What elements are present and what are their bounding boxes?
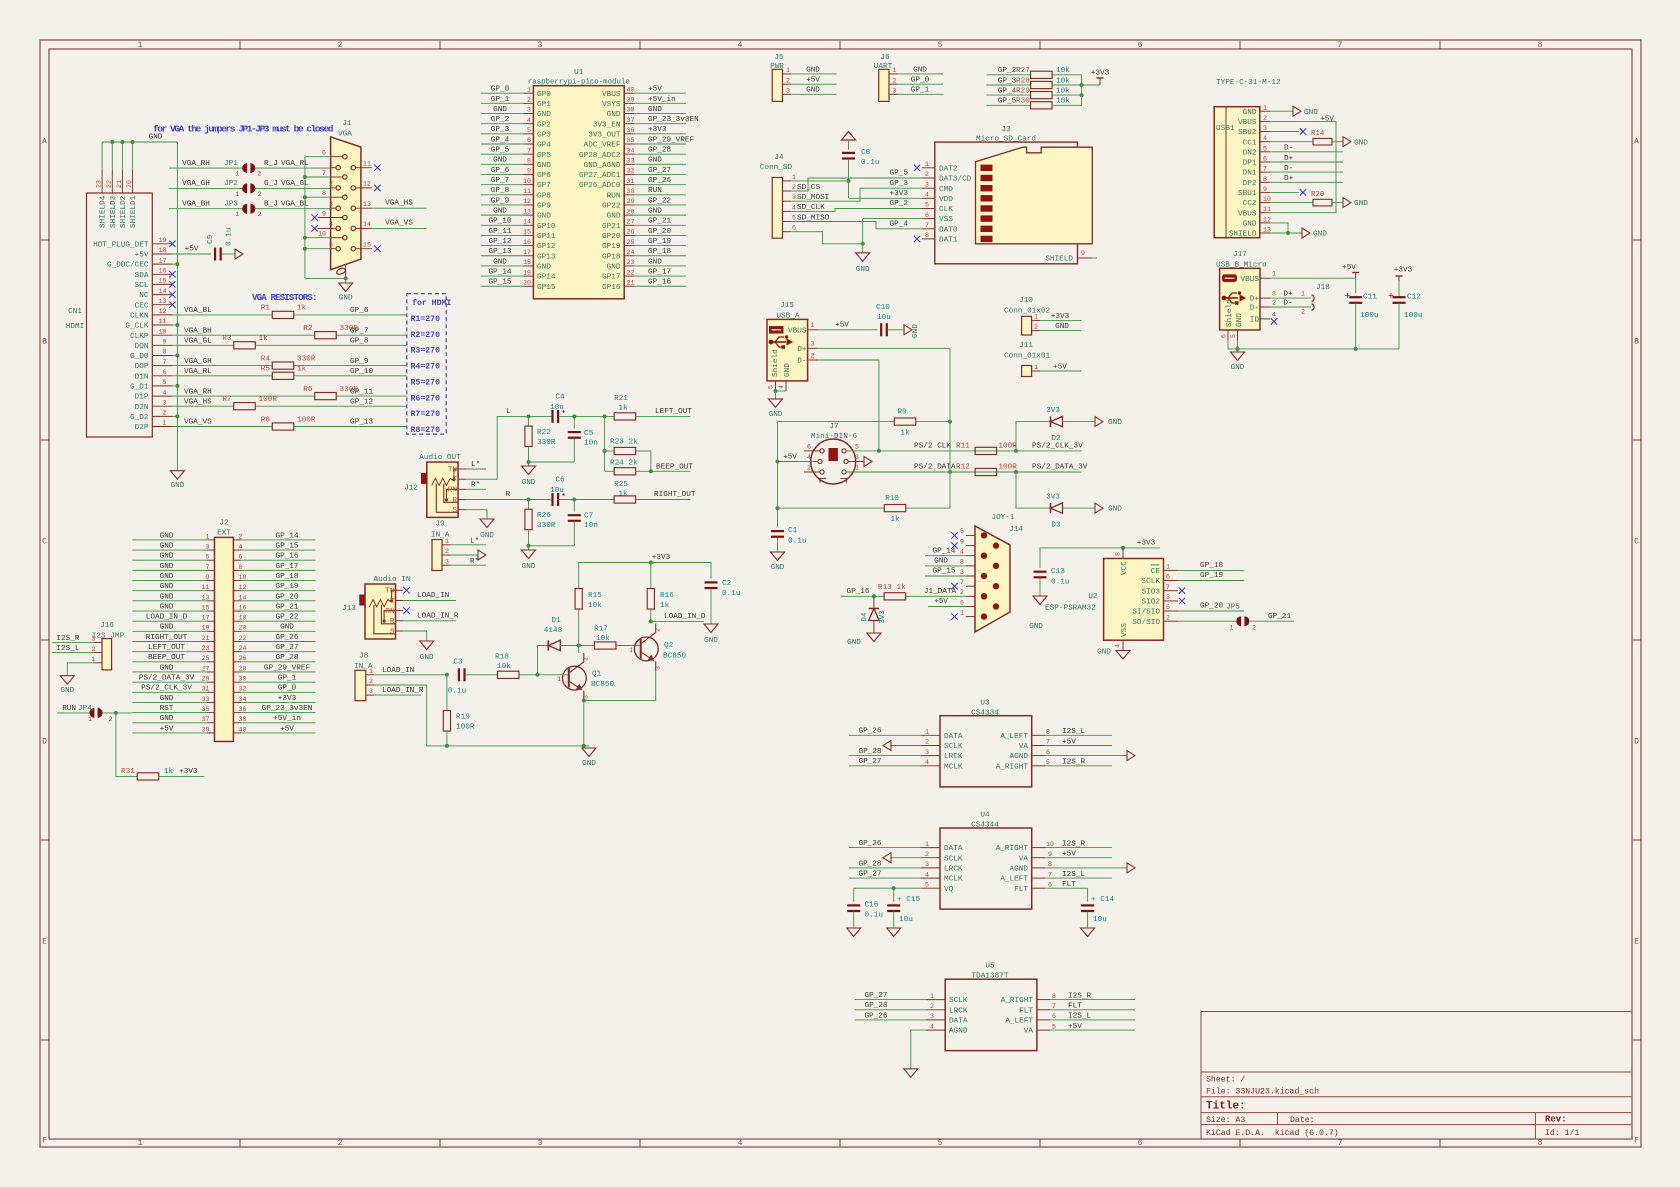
svg-text:VGA_RL: VGA_RL	[184, 368, 212, 376]
J3 contact pad	[981, 205, 993, 211]
svg-text:Title:: Title:	[1206, 1101, 1246, 1113]
svg-text:3: 3	[655, 666, 662, 670]
wire	[1355, 303, 1357, 349]
svg-text:1k: 1k	[890, 516, 900, 524]
svg-text:1: 1	[960, 609, 964, 616]
wire	[173, 263, 178, 265]
J2 pin 28	[233, 671, 241, 673]
junction	[603, 414, 607, 418]
svg-text:GP_26: GP_26	[858, 728, 881, 736]
svg-text:5: 5	[960, 528, 964, 535]
svg-text:4: 4	[930, 1023, 934, 1030]
wire SD_CS to DAT3/CD	[791, 178, 922, 191]
U1 pin 13 GND	[523, 214, 533, 216]
svg-text:1: 1	[138, 41, 143, 50]
svg-text:C: C	[42, 538, 47, 547]
wire GP_15	[481, 285, 524, 287]
junction	[774, 389, 778, 393]
svg-text:A_RIGHT: A_RIGHT	[996, 845, 1029, 853]
J12 pin R	[458, 499, 466, 501]
svg-text:GP_5: GP_5	[998, 98, 1017, 106]
svg-text:GP_6: GP_6	[350, 307, 369, 315]
wire D-	[1270, 171, 1343, 173]
wire GP_28	[855, 1009, 926, 1011]
svg-text:22: 22	[627, 269, 635, 276]
wire LOAD_IN_D	[651, 620, 704, 622]
J2 pin 7	[207, 569, 215, 571]
svg-text:GND: GND	[1243, 109, 1257, 117]
J15 pin 4 gnd stub	[785, 381, 787, 391]
svg-text:Conn_01x02: Conn_01x02	[1004, 308, 1051, 316]
unconnected arrow	[1127, 751, 1135, 761]
ground symbol above C8	[842, 132, 856, 141]
svg-text:+: +	[1344, 292, 1350, 303]
U1 pin 2 GP1	[523, 102, 533, 104]
svg-text:5: 5	[527, 127, 531, 134]
svg-text:GND: GND	[160, 573, 174, 581]
svg-text:16: 16	[239, 604, 247, 611]
J1 shield tab	[336, 267, 346, 275]
J3 contact pad	[981, 215, 993, 221]
svg-text:GP_27: GP_27	[858, 871, 881, 879]
diode D2 zener 3V3	[1016, 422, 1050, 451]
U2 pin 4 VSS	[1122, 640, 1124, 650]
wire GND	[132, 559, 207, 561]
svg-text:5: 5	[768, 385, 775, 389]
svg-text:CEC: CEC	[135, 302, 149, 310]
wire GP_7	[481, 184, 524, 186]
svg-text:JP2: JP2	[224, 180, 238, 188]
wire D+	[1270, 161, 1343, 163]
svg-text:S: S	[452, 507, 457, 515]
junction	[1121, 546, 1125, 550]
wire	[578, 646, 580, 654]
svg-text:34: 34	[239, 696, 247, 703]
J15 VBUS pin 1	[808, 329, 818, 331]
svg-text:GND: GND	[537, 162, 551, 170]
svg-text:VDD: VDD	[939, 196, 953, 204]
J3 pin 8 DAT1	[922, 238, 935, 240]
J1 pin hole 8	[343, 195, 347, 199]
wire	[636, 415, 691, 417]
svg-text:7: 7	[1263, 166, 1267, 173]
svg-text:2: 2	[583, 657, 590, 661]
svg-text:VBUS: VBUS	[602, 91, 621, 99]
IC U1 raspberrypi-pico-module body	[533, 86, 624, 299]
svg-text:2: 2	[109, 716, 113, 723]
J13 pin RN	[396, 610, 404, 612]
wire	[1039, 578, 1041, 596]
svg-text:1k: 1k	[164, 768, 174, 776]
svg-text:R: R	[390, 618, 395, 626]
svg-text:GND: GND	[493, 106, 507, 114]
svg-text:SHIELD: SHIELD	[1045, 256, 1073, 264]
wire +3V3	[1040, 319, 1082, 321]
svg-text:GND: GND	[1354, 200, 1368, 208]
wire +5V	[132, 732, 207, 734]
capacitor C6 10u	[551, 493, 553, 506]
svg-text:+3V3: +3V3	[1051, 313, 1070, 321]
wire VGA_GL to GP_8	[173, 344, 234, 346]
svg-text:7: 7	[1046, 739, 1050, 746]
svg-text:R26: R26	[537, 512, 551, 520]
svg-text:GND: GND	[522, 479, 536, 487]
J13 pin R	[396, 620, 404, 622]
connector J10 body	[1022, 316, 1032, 335]
svg-text:R25: R25	[614, 481, 628, 489]
svg-text:D2P: D2P	[135, 424, 149, 432]
svg-text:GND: GND	[1097, 649, 1111, 657]
wire GND	[791, 73, 836, 75]
resistor R21 1k	[614, 413, 636, 420]
svg-text:7: 7	[322, 170, 326, 177]
wire GP_1	[481, 102, 524, 104]
svg-text:GP_1: GP_1	[491, 96, 510, 104]
wire PS/2_DATA_3V	[132, 681, 207, 683]
J3 contact pad	[981, 226, 993, 232]
J2 pin 12	[233, 590, 241, 592]
wire	[1398, 303, 1400, 349]
svg-text:GP4: GP4	[537, 142, 551, 150]
wire J1_DATA	[915, 595, 966, 597]
svg-text:D-: D-	[1284, 145, 1293, 153]
wire GP_14	[241, 539, 316, 541]
svg-text:100u: 100u	[1360, 312, 1378, 320]
svg-text:37: 37	[202, 716, 210, 723]
svg-text:1: 1	[1263, 105, 1267, 112]
resistor R26 330R	[528, 500, 530, 510]
U1 pin 32 GP27_ADC1	[624, 173, 634, 175]
wire GND rail above CN1	[102, 141, 177, 143]
svg-text:GP8: GP8	[537, 192, 551, 200]
wire +5V_in	[634, 102, 686, 104]
wire	[616, 645, 635, 647]
capacitor C1 0.1u	[771, 530, 784, 532]
wire LEFT_OUT	[132, 651, 207, 653]
USB1 pin 5 DN2	[1260, 151, 1270, 153]
svg-text:12: 12	[523, 198, 531, 205]
svg-text:J9: J9	[435, 521, 445, 529]
svg-text:GP10: GP10	[537, 223, 556, 231]
svg-text:LOAD_IN_D: LOAD_IN_D	[664, 613, 706, 621]
svg-text:GP22: GP22	[602, 203, 621, 211]
svg-text:SCLK: SCLK	[944, 743, 963, 751]
svg-text:RST: RST	[160, 705, 174, 713]
svg-text:GND: GND	[1236, 313, 1244, 327]
svg-text:10: 10	[159, 328, 167, 335]
J17 pin 4 ID	[1260, 318, 1270, 320]
connector J14 DB9 body	[975, 526, 1010, 632]
svg-text:2: 2	[786, 77, 790, 84]
J14 pin 8 stub	[966, 565, 975, 567]
wire	[173, 415, 178, 417]
svg-text:6: 6	[527, 137, 531, 144]
wire GND	[132, 600, 207, 602]
svg-text:+3V3: +3V3	[648, 126, 667, 134]
svg-text:D1N: D1N	[135, 373, 149, 381]
svg-text:R5=270: R5=270	[411, 378, 441, 387]
connector J4 Conn_SD body	[772, 178, 782, 239]
wire GP_22	[241, 620, 316, 622]
wire	[221, 253, 235, 255]
wire	[116, 713, 137, 777]
svg-text:CC1: CC1	[1243, 139, 1257, 147]
svg-text:21: 21	[116, 180, 123, 188]
svg-text:1: 1	[163, 420, 167, 427]
svg-text:G_D2: G_D2	[130, 414, 149, 422]
svg-text:LOAD_IN_R: LOAD_IN_R	[382, 687, 424, 695]
U1 pin 30 RUN	[624, 194, 634, 196]
jumper JP3	[242, 204, 247, 214]
svg-text:GP_1: GP_1	[278, 675, 297, 683]
svg-text:TN: TN	[385, 588, 394, 596]
wire bottom gnd	[305, 277, 346, 279]
svg-text:1: 1	[925, 841, 929, 848]
wire GP_28	[849, 755, 921, 757]
svg-text:1: 1	[445, 538, 449, 545]
svg-text:D-: D-	[1283, 299, 1292, 307]
svg-text:U3: U3	[980, 700, 990, 708]
svg-text:R31: R31	[121, 768, 135, 776]
connector J13 audio jack body	[365, 584, 396, 639]
svg-text:D+: D+	[1284, 175, 1294, 183]
wire VGA_GH	[169, 187, 244, 189]
wire	[1092, 257, 1097, 259]
connector J6 UART body	[879, 69, 889, 101]
wire GP_0	[481, 92, 524, 94]
wire VGA_RL to GP_10	[173, 375, 273, 377]
svg-text:15: 15	[523, 229, 531, 236]
power arrow +5V	[235, 249, 243, 259]
svg-text:GP14: GP14	[537, 274, 556, 282]
wire GP_26	[849, 847, 921, 849]
J1 pin 1 stub	[331, 167, 336, 169]
wire GP_13	[481, 255, 524, 257]
svg-text:RIGHT_OUT: RIGHT_OUT	[654, 491, 696, 499]
wire SD_CLK to CLK	[791, 209, 922, 212]
wire VQ	[854, 887, 921, 889]
svg-text:G_D0: G_D0	[130, 353, 149, 361]
resistor R13 1k	[884, 593, 906, 600]
svg-text:TYPE-C-31-M-12: TYPE-C-31-M-12	[1216, 79, 1281, 87]
svg-text:F: F	[1634, 1137, 1639, 1146]
note box for HDMI	[407, 294, 446, 435]
svg-text:DATA: DATA	[944, 733, 963, 741]
svg-text:T: T	[390, 598, 395, 606]
U1 pin 14 GP10	[523, 224, 533, 226]
svg-text:LEFT_OUT: LEFT_OUT	[655, 408, 692, 416]
svg-text:GND: GND	[160, 553, 174, 561]
svg-text:GP_26: GP_26	[864, 1012, 887, 1020]
svg-text:BEEP_OUT: BEEP_OUT	[148, 654, 185, 662]
wire	[636, 499, 691, 501]
svg-text:12: 12	[363, 181, 371, 188]
svg-text:R29: R29	[1016, 88, 1030, 96]
svg-text:7: 7	[163, 359, 167, 366]
svg-text:HOT_PLUG_DET: HOT_PLUG_DET	[93, 241, 149, 249]
U1 pin 26 GP20	[624, 234, 634, 236]
J1 pin hole 7	[343, 175, 347, 179]
svg-text:6: 6	[1138, 41, 1143, 50]
capacitor C9	[214, 248, 216, 261]
wire VSS to ground	[863, 219, 922, 253]
wire	[254, 208, 331, 210]
J15 plug icon	[770, 327, 784, 334]
resistor R28 10k	[1031, 81, 1053, 88]
svg-text:VSS: VSS	[1121, 623, 1129, 637]
resistor R8	[272, 423, 294, 430]
svg-text:GP9: GP9	[537, 203, 551, 211]
J2 pin 15	[207, 610, 215, 612]
svg-text:GP_7: GP_7	[491, 177, 510, 185]
svg-text:BEEP_OUT: BEEP_OUT	[656, 463, 693, 471]
no-connect x	[374, 246, 380, 252]
J2 pin 11	[207, 590, 215, 592]
svg-text:VGA_GL: VGA_GL	[184, 338, 212, 346]
U5 pin 8 A_RIGHT	[1037, 999, 1050, 1001]
svg-text:DP1: DP1	[1243, 160, 1257, 168]
wire GP_4	[481, 143, 524, 145]
U1 pin 4 GP2	[523, 123, 533, 125]
svg-text:J4: J4	[774, 154, 784, 162]
J7 pin hole 3	[844, 459, 848, 463]
svg-text:GND: GND	[648, 106, 662, 114]
wire SHIELD	[1270, 232, 1302, 234]
svg-text:7: 7	[1166, 584, 1170, 591]
U1 pin 10 GP7	[523, 184, 533, 186]
J3 contact pad	[981, 175, 993, 181]
svg-text:CLKN: CLKN	[130, 313, 148, 321]
wire SD_MISO to DAT0	[791, 222, 922, 229]
wire	[159, 775, 205, 777]
svg-text:5: 5	[163, 379, 167, 386]
jumper JP5	[1236, 616, 1241, 626]
U5 pin 1 SCLK	[926, 999, 945, 1001]
svg-text:8: 8	[322, 190, 326, 197]
svg-text:R_J: R_J	[264, 160, 278, 168]
svg-text:19: 19	[202, 625, 210, 632]
svg-text:D: D	[1634, 738, 1639, 747]
J14 pin dot 8	[993, 563, 999, 569]
connector J9 body	[432, 540, 442, 571]
svg-text:4: 4	[778, 385, 785, 389]
wire S to gnd	[466, 510, 487, 519]
wire	[465, 674, 498, 676]
IC U3 CS4334 body	[940, 716, 1032, 787]
svg-text:I2S_L: I2S_L	[1062, 728, 1085, 736]
svg-text:GND: GND	[420, 654, 434, 662]
svg-text:VGA: VGA	[338, 131, 352, 139]
svg-text:2: 2	[925, 171, 929, 178]
U3 pin 8 A_LEFT	[1032, 734, 1045, 736]
svg-text:SCL: SCL	[135, 282, 149, 290]
svg-text:3: 3	[893, 88, 897, 95]
svg-text:GND: GND	[537, 111, 551, 119]
svg-text:5: 5	[329, 242, 333, 249]
svg-text:GP_26: GP_26	[275, 634, 298, 642]
wire	[1045, 755, 1127, 757]
USB1 pin 4 CC1	[1260, 141, 1270, 143]
wire I2S_L	[52, 652, 94, 654]
svg-text:+5V_in: +5V_in	[273, 715, 301, 723]
resistor R16 1k	[650, 563, 652, 589]
svg-text:1: 1	[88, 716, 92, 723]
svg-text:LRCK: LRCK	[944, 866, 963, 874]
svg-text:4: 4	[329, 221, 333, 228]
svg-text:GP17: GP17	[602, 274, 621, 282]
wire GP_4	[986, 94, 1030, 96]
wire GP_18	[634, 255, 686, 257]
ground symbol below R26	[528, 546, 530, 550]
svg-text:GND: GND	[160, 624, 174, 632]
junction	[536, 673, 540, 677]
svg-text:36: 36	[239, 706, 247, 713]
U1 pin 23 GND	[624, 265, 634, 267]
svg-text:NC: NC	[139, 292, 149, 300]
svg-text:RN: RN	[385, 608, 394, 616]
svg-text:9: 9	[1048, 851, 1052, 858]
svg-text:2: 2	[92, 646, 96, 653]
resistor R7	[234, 403, 256, 410]
no-connect x	[374, 185, 380, 191]
no-connect x	[169, 281, 175, 287]
svg-text:3: 3	[786, 88, 790, 95]
wire GP_27	[241, 651, 316, 653]
svg-text:1: 1	[786, 67, 790, 74]
no-connect x	[1179, 598, 1185, 604]
wire BEEP_OUT	[636, 470, 691, 472]
J8 pin 2	[366, 684, 374, 686]
svg-text:6: 6	[1138, 1139, 1143, 1148]
wire	[584, 745, 589, 747]
jumper JP2	[242, 183, 247, 193]
junction	[1080, 93, 1084, 97]
svg-text:VGA_RH: VGA_RH	[182, 160, 210, 168]
svg-text:GP19: GP19	[602, 243, 621, 251]
U1 pin 39 VSYS	[624, 102, 634, 104]
svg-text:R: R	[452, 497, 457, 505]
J1 pin 12 stub	[356, 187, 372, 189]
svg-text:+: +	[1388, 292, 1394, 303]
svg-text:17: 17	[523, 249, 531, 256]
svg-text:GP_10: GP_10	[350, 368, 373, 376]
wire GP_20	[634, 234, 686, 236]
svg-text:3: 3	[92, 636, 96, 643]
svg-text:28: 28	[627, 208, 635, 215]
svg-text:30: 30	[239, 676, 247, 683]
svg-text:GP_20: GP_20	[648, 228, 671, 236]
svg-text:GND_AGND: GND_AGND	[584, 162, 621, 170]
wire	[853, 912, 855, 929]
svg-text:GP_15: GP_15	[932, 568, 955, 576]
wire GP_12	[481, 245, 524, 247]
svg-text:3: 3	[1166, 594, 1170, 601]
no-connect x	[311, 214, 317, 220]
wire GND	[925, 565, 966, 567]
svg-text:2: 2	[925, 739, 929, 746]
svg-text:15: 15	[363, 242, 371, 249]
svg-text:VGA_GH: VGA_GH	[182, 180, 210, 188]
svg-text:GP_7: GP_7	[350, 327, 369, 335]
wire	[446, 731, 448, 746]
jumper JP1	[242, 163, 247, 173]
svg-text:+3V3: +3V3	[1091, 70, 1110, 78]
svg-text:VGA_GH: VGA_GH	[184, 358, 212, 366]
svg-text:GND: GND	[648, 258, 662, 266]
wire GP_27	[855, 999, 926, 1001]
svg-text:Mini-DIN-6: Mini-DIN-6	[811, 433, 858, 441]
U1 pin 5 GP3	[523, 133, 533, 135]
